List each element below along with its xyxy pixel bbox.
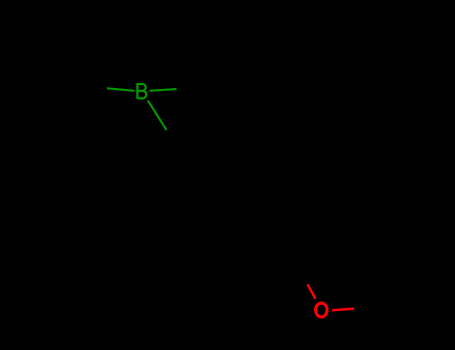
- atom B (boron): [137, 83, 146, 99]
- wire bond B down to ring carbon: [148, 101, 167, 131]
- wire bond ring carbon to O: [308, 284, 316, 299]
- wire bond B to left methyl: [107, 88, 135, 91]
- wire bond O to methyl: [332, 309, 354, 311]
- wire bond B to right methyl: [150, 89, 177, 91]
- atom O (oxygen, methoxy): [316, 303, 328, 317]
